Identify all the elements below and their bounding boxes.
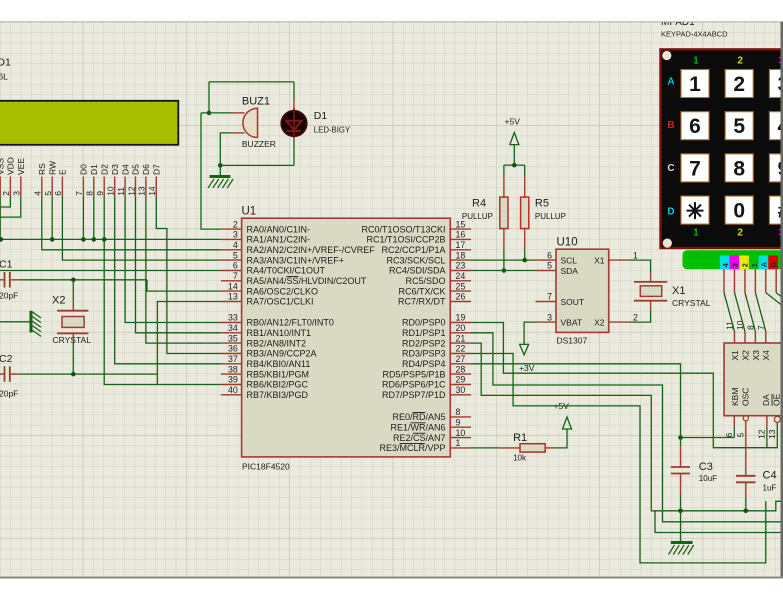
svg-text:0: 0 xyxy=(733,200,745,223)
window bottom margin xyxy=(0,577,783,579)
svg-text:5: 5 xyxy=(43,191,53,196)
U1 right pin 18 stub xyxy=(450,259,471,261)
svg-text:5: 5 xyxy=(233,250,238,260)
wire keypad column 3 to encoder xyxy=(735,293,746,332)
svg-text:PULLUP: PULLUP xyxy=(535,212,566,221)
svg-text:24: 24 xyxy=(456,271,466,281)
keypad strip pin 1 stub xyxy=(754,269,756,292)
wire RS to U1 RA2 xyxy=(42,196,221,250)
LCD pin 10 D3 stub xyxy=(114,177,116,197)
svg-text:3: 3 xyxy=(233,230,238,240)
svg-text:+5V: +5V xyxy=(505,117,521,127)
svg-text:X2: X2 xyxy=(740,350,750,361)
svg-text:RA5/AN4/SS/HLVDIN/C2OUT: RA5/AN4/SS/HLVDIN/C2OUT xyxy=(247,276,367,286)
svg-text:RA4/T0CKI/C1OUT: RA4/T0CKI/C1OUT xyxy=(247,266,326,276)
svg-text:C4: C4 xyxy=(763,470,777,482)
svg-text:1: 1 xyxy=(693,228,699,239)
keypad strip cell 3 xyxy=(730,256,740,270)
svg-text:9: 9 xyxy=(95,191,105,196)
svg-text:14: 14 xyxy=(228,281,238,291)
U1 right pin 29 stub xyxy=(450,384,471,386)
junction node B at X2 bottom xyxy=(71,372,76,377)
wire U1 RD0 pin19 to encoder OE xyxy=(471,323,777,448)
svg-text:B: B xyxy=(667,120,674,131)
svg-text:7: 7 xyxy=(233,271,238,281)
svg-text:D: D xyxy=(667,206,674,217)
svg-text:10uF: 10uF xyxy=(699,474,717,483)
wire bus RW/D0-D3 to U1 RA1 xyxy=(0,238,221,240)
wire VEE pin3 to left edge xyxy=(0,196,21,217)
wire U1 MCLR pin1 to R1 xyxy=(471,447,499,449)
ground symbol below buzzer xyxy=(210,175,231,178)
keypad key 2 xyxy=(725,70,753,98)
svg-text:RC1/T1OSI/CCP2B: RC1/T1OSI/CCP2B xyxy=(366,235,445,245)
encoder top pin 11 X1 stub xyxy=(734,332,736,344)
svg-text:RB4/KBI0/AN11: RB4/KBI0/AN11 xyxy=(247,359,311,369)
svg-text:RB3/AN9/CCP2A: RB3/AN9/CCP2A xyxy=(247,349,317,359)
wire node B to U1 OSC1 pin13 xyxy=(157,302,221,385)
wire top rail down to buzzer node xyxy=(208,82,210,113)
svg-text:VBAT: VBAT xyxy=(561,318,583,328)
keypad strip cell 4 xyxy=(720,256,730,270)
keypad key * xyxy=(681,196,709,224)
LCD pin 1 VSS stub xyxy=(0,177,1,197)
svg-text:7: 7 xyxy=(547,292,552,302)
wire SCL U1 RC3 to U10 xyxy=(471,259,536,261)
keypad screw hole bottom xyxy=(663,239,672,248)
junction buzzer node xyxy=(207,111,212,116)
svg-text:A: A xyxy=(667,77,674,88)
keypad key 7 xyxy=(681,154,709,182)
svg-text:X3: X3 xyxy=(751,350,761,361)
wire R5 to SCL xyxy=(524,249,526,260)
wire C1 to crystal node A xyxy=(20,279,147,281)
wire D5 to U1 RB1 xyxy=(136,196,221,332)
keypad body xyxy=(661,49,783,248)
svg-text:27: 27 xyxy=(456,354,466,364)
U1 right pin 20 stub xyxy=(450,332,471,334)
svg-text:RA3/AN3/C1IN+/VREF+: RA3/AN3/C1IN+/VREF+ xyxy=(247,255,345,265)
svg-text:13: 13 xyxy=(228,292,238,302)
LCD pin 13 D6 stub xyxy=(145,177,147,197)
svg-text:18: 18 xyxy=(456,250,466,260)
svg-text:2: 2 xyxy=(740,263,749,267)
ground symbol bottom right xyxy=(680,511,682,543)
svg-text:RE3/MCLR/VPP: RE3/MCLR/VPP xyxy=(379,443,445,453)
junction VSS-bus xyxy=(0,237,3,242)
U1 left pin 37 stub xyxy=(221,363,242,365)
keypad strip cell 2 xyxy=(739,256,749,270)
U10 left pin 3 VBAT stub xyxy=(536,321,557,323)
svg-text:2: 2 xyxy=(737,56,743,67)
svg-text:1uF: 1uF xyxy=(763,484,777,493)
svg-text:X1: X1 xyxy=(730,350,740,361)
svg-text:C2: C2 xyxy=(0,353,13,365)
svg-text:RD0/PSP0: RD0/PSP0 xyxy=(402,318,446,328)
svg-text:RD2/PSP2: RD2/PSP2 xyxy=(402,338,446,348)
window top margin xyxy=(0,0,783,22)
wire U10 X1 to crystal X1 xyxy=(629,260,650,273)
svg-text:17: 17 xyxy=(456,240,466,250)
svg-text:2: 2 xyxy=(737,228,743,239)
U1 left pin 35 stub xyxy=(221,342,242,344)
svg-text:RB2/AN8/INT2: RB2/AN8/INT2 xyxy=(247,338,307,348)
svg-text:6: 6 xyxy=(547,250,552,260)
junction R4-SDA xyxy=(502,268,507,273)
svg-text:6: 6 xyxy=(724,433,734,438)
U1 left pin 6 stub xyxy=(221,270,242,272)
keypad key 6 xyxy=(681,112,709,140)
svg-text:VSS: VSS xyxy=(0,158,5,175)
svg-text:U1: U1 xyxy=(242,206,257,218)
keypad strip pin A stub xyxy=(765,269,767,292)
svg-text:5: 5 xyxy=(735,433,745,438)
encoder bottom pin 5 OSC stub with bubble xyxy=(743,416,748,421)
svg-text:28: 28 xyxy=(456,364,466,374)
U1 right pin 26 stub xyxy=(450,301,471,303)
U1 right pin 22 stub xyxy=(450,353,471,355)
svg-text:2: 2 xyxy=(633,312,638,322)
wire D2 drop to U1 RB6 xyxy=(104,196,221,384)
crystal X1 pins xyxy=(650,273,652,282)
svg-text:RA1/AN1/C2IN-: RA1/AN1/C2IN- xyxy=(247,235,311,245)
wire RW drop xyxy=(51,196,53,239)
+5V power terminal near R1 xyxy=(563,417,572,429)
svg-text:RA0/AN0/C1IN-: RA0/AN0/C1IN- xyxy=(247,224,311,234)
resistor R4 body xyxy=(503,165,505,176)
U1 left pin 39 stub xyxy=(221,384,242,386)
svg-text:C1: C1 xyxy=(0,259,13,271)
svg-text:12: 12 xyxy=(756,429,766,439)
crystal X1 top plate xyxy=(634,281,667,283)
svg-text:RB0/AN12/FLT0/INT0: RB0/AN12/FLT0/INT0 xyxy=(247,318,334,328)
capacitor C2 pins xyxy=(0,373,4,375)
svg-text:VDD: VDD xyxy=(6,157,16,175)
svg-text:RC6/TX/CK: RC6/TX/CK xyxy=(398,286,445,296)
svg-text:29: 29 xyxy=(456,375,466,385)
U1 left pin 13 stub xyxy=(221,301,242,303)
svg-text:4: 4 xyxy=(33,191,43,196)
U1 right pin 21 stub xyxy=(450,342,471,344)
svg-text:26: 26 xyxy=(456,292,466,302)
svg-text:SOUT: SOUT xyxy=(561,297,585,307)
U1 left pin 2 stub xyxy=(221,228,242,230)
capacitor C4 top pin from encoder OSC xyxy=(745,421,747,476)
wire D6 to U1 RB2 xyxy=(146,196,221,343)
encoder bottom pin 13 OE stub with bubble xyxy=(774,416,780,422)
svg-text:X2: X2 xyxy=(52,295,65,307)
keypad key 3 xyxy=(769,70,783,98)
LCD pin 14 D7 stub xyxy=(155,177,157,197)
capacitor C4 bottom pin xyxy=(745,482,747,497)
IC U1 body xyxy=(242,218,451,457)
svg-text:6: 6 xyxy=(689,115,701,138)
svg-text:D1: D1 xyxy=(89,164,99,175)
svg-text:3: 3 xyxy=(731,263,740,267)
U1 left pin 4 stub xyxy=(221,249,242,251)
svg-text:X4: X4 xyxy=(761,350,771,361)
wire buzzer pin2 to ground node xyxy=(220,133,232,177)
svg-text:5: 5 xyxy=(547,261,552,271)
wire encoder DA pin12 drop xyxy=(766,427,768,448)
encoder top pin 8 X3 stub xyxy=(754,332,756,344)
svg-text:3: 3 xyxy=(547,312,552,322)
svg-text:RC4/SDI/SDA: RC4/SDI/SDA xyxy=(389,266,446,276)
capacitor C3 plates xyxy=(671,466,690,468)
wire D1 drop xyxy=(93,196,95,239)
keypad key 9 xyxy=(769,154,783,182)
U1 right pin 27 stub xyxy=(450,363,471,365)
junction D2-bus xyxy=(102,237,107,242)
svg-text:RB7/KBI3/PGD: RB7/KBI3/PGD xyxy=(247,390,309,400)
svg-text:8: 8 xyxy=(456,407,461,417)
U1 left pin 36 stub xyxy=(221,353,242,355)
U1 right pin 17 stub xyxy=(450,249,471,251)
svg-text:5: 5 xyxy=(733,115,745,138)
svg-text:35: 35 xyxy=(228,333,238,343)
U1 right pin 30 stub xyxy=(450,394,471,396)
svg-text:C3: C3 xyxy=(699,461,713,473)
svg-text:RA7/OSC1/CLKI: RA7/OSC1/CLKI xyxy=(247,297,314,307)
svg-text:D1: D1 xyxy=(314,110,328,122)
encoder top pin 7 X4 stub xyxy=(765,332,767,344)
svg-text:RA2/AN2/C2IN+/VREF-/CVREF: RA2/AN2/C2IN+/VREF-/CVREF xyxy=(247,245,376,255)
U10 left pin 7 SOUT stub xyxy=(536,301,557,303)
svg-text:RB1/AN10/INT1: RB1/AN10/INT1 xyxy=(247,328,312,338)
svg-text:22: 22 xyxy=(456,344,466,354)
svg-text:36: 36 xyxy=(228,344,238,354)
U10 right pin 1 X1 stub xyxy=(609,259,630,261)
buzzer BUZ1 body xyxy=(243,108,258,137)
svg-text:CRYSTAL: CRYSTAL xyxy=(672,298,711,308)
U10 right pin 2 X2 stub xyxy=(609,321,630,323)
svg-text:+3V: +3V xyxy=(519,363,535,373)
svg-text:11: 11 xyxy=(116,187,126,196)
svg-text:19: 19 xyxy=(456,313,466,323)
wire keypad row B to encoder right xyxy=(776,293,783,310)
U1 right pin 8 stub xyxy=(450,416,471,418)
svg-text:20: 20 xyxy=(456,323,466,333)
U1 left pin 33 stub xyxy=(221,322,242,324)
LCD pin 3 VEE stub xyxy=(20,177,22,197)
svg-text:7: 7 xyxy=(74,191,84,196)
U1 left pin 34 stub xyxy=(221,332,242,334)
svg-text:RC0/T1OSO/T13CKI: RC0/T1OSO/T13CKI xyxy=(361,224,445,234)
junction D0-bus xyxy=(81,237,86,242)
wire D3 to U1 RB4 xyxy=(115,196,221,363)
svg-text:DS1307: DS1307 xyxy=(557,336,588,346)
LCD pin 2 VDD stub xyxy=(9,177,11,197)
svg-text:33: 33 xyxy=(228,313,238,323)
wire D4 to U1 RB0 xyxy=(125,196,221,322)
svg-text:RD6/PSP6/P1C: RD6/PSP6/P1C xyxy=(382,380,446,390)
svg-text:D6: D6 xyxy=(141,164,151,175)
U1 left pin 40 stub xyxy=(221,394,242,396)
svg-text:13: 13 xyxy=(767,429,777,439)
window right edge xyxy=(781,22,783,577)
svg-text:CRYSTAL: CRYSTAL xyxy=(53,335,92,345)
U1 right pin 1 stub xyxy=(450,447,471,449)
LED D1 body xyxy=(281,111,306,136)
keypad screw hole top xyxy=(662,51,671,60)
wire R4 to SDA xyxy=(503,249,505,270)
keypad key 4 xyxy=(769,112,783,140)
LCD pin 7 D0 stub xyxy=(82,177,84,197)
U1 right pin 25 stub xyxy=(450,290,471,292)
U1 left pin 7 stub xyxy=(221,280,242,282)
wire node A to U1 OSC2 pin14 xyxy=(147,280,221,291)
svg-text:1: 1 xyxy=(633,250,638,260)
junction D1-bus xyxy=(92,237,97,242)
wire D0 drop xyxy=(82,196,84,239)
svg-text:D2: D2 xyxy=(99,164,109,175)
svg-text:RC3/SCK/SCL: RC3/SCK/SCL xyxy=(386,255,445,265)
wire R1 to +5V terminal xyxy=(554,429,567,448)
svg-text:D7: D7 xyxy=(152,164,162,175)
svg-text:34: 34 xyxy=(228,323,238,333)
svg-text:DA: DA xyxy=(761,394,771,406)
crystal X2 top plate xyxy=(57,310,88,312)
svg-text:9: 9 xyxy=(456,417,461,427)
svg-text:LCD1: LCD1 xyxy=(0,57,11,69)
svg-text:RC7/RX/DT: RC7/RX/DT xyxy=(398,297,446,307)
svg-text:10: 10 xyxy=(106,186,116,196)
svg-text:7: 7 xyxy=(689,157,701,180)
svg-text:X1: X1 xyxy=(672,285,685,297)
wire keypad column 4 to encoder xyxy=(724,293,735,332)
svg-text:RD1/PSP1: RD1/PSP1 xyxy=(402,328,446,338)
svg-text:8: 8 xyxy=(733,157,745,180)
crystal X2 pins xyxy=(72,301,74,310)
svg-text:VEE: VEE xyxy=(16,158,26,175)
wire U10 VBAT to +3V terminal xyxy=(524,322,535,344)
svg-text:RC2/CCP1/P1A: RC2/CCP1/P1A xyxy=(381,245,445,255)
capacitor C3 top pin xyxy=(680,438,682,447)
svg-text:RE1/WR/AN6: RE1/WR/AN6 xyxy=(390,422,445,432)
capacitor C1 pins xyxy=(0,279,4,281)
keypad strip pin B stub xyxy=(775,269,777,292)
svg-text:A: A xyxy=(760,261,769,267)
svg-text:X2: X2 xyxy=(594,318,605,328)
U1 right pin 28 stub xyxy=(450,373,471,375)
junction RW-bus xyxy=(50,237,55,242)
svg-text:R4: R4 xyxy=(472,198,486,210)
junction +5V rail xyxy=(512,163,517,168)
keypad strip pin 4 stub xyxy=(723,269,725,292)
wire U1 RD4 pin27 to encoder KBM xyxy=(471,364,734,438)
LCD display body xyxy=(0,101,178,145)
wire VSS drop xyxy=(0,196,1,239)
keypad connector strip xyxy=(683,250,783,269)
svg-text:RB6/KBI2/PGC: RB6/KBI2/PGC xyxy=(247,380,309,390)
svg-text:OSC: OSC xyxy=(740,388,750,406)
svg-text:LM016L: LM016L xyxy=(0,72,8,82)
wire X2 bottom to node B xyxy=(72,343,74,374)
LCD pin 6 E stub xyxy=(61,177,63,197)
svg-text:10k: 10k xyxy=(513,454,527,463)
svg-text:B: B xyxy=(769,262,778,267)
U1 left pin 3 stub xyxy=(221,238,242,240)
U1 left pin 5 stub xyxy=(221,259,242,261)
wire branch to right edge row xyxy=(655,511,781,533)
svg-text:37: 37 xyxy=(228,354,238,364)
svg-text:2: 2 xyxy=(733,73,745,96)
wire SDA U1 RC4 to U10 xyxy=(471,270,536,272)
wire X2 top to node A xyxy=(72,280,74,302)
svg-text:RS: RS xyxy=(37,163,47,175)
capacitor C2 plates xyxy=(4,366,6,382)
LCD pin 4 RS stub xyxy=(41,177,43,197)
svg-text:16: 16 xyxy=(456,230,466,240)
svg-text:RD4/PSP4: RD4/PSP4 xyxy=(402,359,446,369)
wire +5V rail to resistor tops xyxy=(504,164,525,166)
U1 left pin 14 stub xyxy=(221,290,242,292)
junction KBM-C3 xyxy=(678,435,683,440)
svg-text:1: 1 xyxy=(456,438,461,448)
U1 right pin 16 stub xyxy=(450,238,471,240)
junction R5-SCL xyxy=(522,258,527,263)
svg-text:14: 14 xyxy=(147,186,157,196)
svg-text:U10: U10 xyxy=(557,237,578,249)
svg-text:E: E xyxy=(58,169,68,175)
junction ground node xyxy=(218,163,223,168)
keypad key 1 xyxy=(681,70,709,98)
keypad key 8 xyxy=(725,154,753,182)
keypad key # xyxy=(769,196,783,224)
keypad strip pin 3 stub xyxy=(734,269,736,292)
keypad key 5 xyxy=(725,112,753,140)
svg-text:OE: OE xyxy=(772,393,782,406)
wire keypad column 1 to encoder xyxy=(755,293,765,332)
svg-text:6: 6 xyxy=(53,191,63,196)
wire keypad column 2 to encoder xyxy=(745,293,755,332)
U10 left pin 6 SCL stub xyxy=(536,259,557,261)
svg-text:RD7/PSP7/P1D: RD7/PSP7/P1D xyxy=(382,390,446,400)
wire U1 RD3 pin22 to right edge xyxy=(471,354,766,563)
svg-text:13: 13 xyxy=(137,186,147,196)
keypad key 0 xyxy=(725,196,753,224)
wire buzzer node to buzzer pin1 xyxy=(201,112,232,114)
svg-text:KBM: KBM xyxy=(730,388,740,406)
wire crystal X1 to U10 X2 xyxy=(629,310,650,322)
svg-text:R5: R5 xyxy=(535,198,549,210)
resistor R5 body xyxy=(524,165,526,176)
svg-text:30: 30 xyxy=(456,385,466,395)
svg-text:12: 12 xyxy=(126,186,136,196)
wire E to U1 RA3 xyxy=(62,196,221,260)
keypad strip cell B xyxy=(768,256,778,270)
svg-text:1: 1 xyxy=(693,56,699,67)
LCD pin 5 RW stub xyxy=(51,177,53,197)
wire left edge to U1 RA4 xyxy=(0,270,221,272)
wire bottom rail to LED cathode xyxy=(220,164,294,166)
wire buzzer net to U1 RA0 pin2 xyxy=(201,113,221,229)
svg-text:D0: D0 xyxy=(79,164,89,175)
svg-text:4: 4 xyxy=(233,240,238,250)
svg-text:SCL: SCL xyxy=(561,256,578,266)
junction C4-ground rail xyxy=(744,509,749,514)
U1 right pin 19 stub xyxy=(450,322,471,324)
encoder bottom pin 12 DA stub xyxy=(766,416,768,427)
wire keypad row A to encoder right xyxy=(766,293,783,318)
encoder bottom pin 6 KBM stub xyxy=(733,416,735,427)
U1 right pin 15 stub xyxy=(450,228,471,230)
svg-text:RE0/RD/AN5: RE0/RD/AN5 xyxy=(392,412,445,422)
svg-text:1: 1 xyxy=(689,73,701,96)
LCD pin 9 D2 stub xyxy=(103,177,105,197)
keypad strip pin 2 stub xyxy=(744,269,746,292)
crystal X2 body xyxy=(62,317,84,328)
